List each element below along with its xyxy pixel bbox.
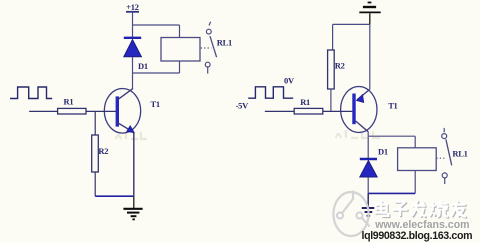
svg-text:D1: D1: [378, 147, 388, 157]
wire relay top vertical (right): [414, 136, 416, 148]
wire collector down: [367, 132, 369, 136]
relay contact (right) top circle: [442, 134, 447, 139]
node +12 supply bar: [126, 11, 139, 13]
wire relay bottom vertical (right): [414, 171, 416, 194]
relay contact arm: [210, 36, 217, 57]
diode D1 (right) cathode bar: [360, 158, 377, 160]
relay contact (right) bottom lead: [444, 178, 446, 184]
svg-text:0V: 0V: [284, 76, 295, 86]
diode D1 (right) triangle: [360, 161, 377, 177]
wire supply vertical: [132, 13, 134, 38]
transistor T1 collector line: [118, 88, 134, 99]
wire emitter vertical: [133, 133, 135, 197]
transistor T1 emitter line: [118, 123, 135, 133]
wire R1 to base (right): [323, 110, 353, 112]
ground (top, inverted) bars: [368, 2, 372, 4]
wire diode bottom: [367, 177, 369, 193]
wire input: [29, 110, 57, 112]
relay contact (right) arm: [446, 139, 452, 165]
wire input (right): [265, 110, 294, 112]
faint ghost watermark right: [336, 130, 380, 138]
relay contact bottom lead: [207, 67, 209, 73]
transistor T1 circle: [104, 89, 140, 134]
ground stem (top): [369, 13, 371, 24]
transistor T1 (right) emitter arrow (PNP): [356, 94, 363, 102]
relay coil RL1 box (right): [398, 148, 437, 171]
transistor T1 (right) emitter line: [357, 90, 370, 101]
resistor R1 (right): [294, 108, 323, 114]
wire bottom horizontal: [95, 195, 134, 197]
relay contact top circle: [206, 29, 211, 34]
relay coil RL1 box: [161, 38, 200, 62]
svg-text:R2: R2: [335, 60, 345, 70]
svg-text:+12: +12: [126, 2, 138, 12]
transistor T1 (right) collector line: [356, 121, 369, 132]
svg-text:T1: T1: [388, 101, 397, 111]
svg-text:D1: D1: [138, 61, 148, 71]
wire emitter feed vertical: [369, 24, 371, 89]
svg-text:lql990832.blog.163.com: lql990832.blog.163.com: [362, 230, 473, 242]
transistor T1 base bar: [116, 96, 119, 126]
svg-text:RL1: RL1: [452, 149, 467, 159]
resistor R2 (right): [328, 50, 335, 89]
wire base junction down: [94, 111, 96, 135]
relay contact RL1 top tick: [209, 22, 211, 26]
wire R1 to base: [86, 110, 116, 112]
transistor T1 (right) circle: [341, 87, 377, 133]
transistor T1 emitter arrow: [127, 126, 135, 133]
faint ghost watermark left: [116, 131, 147, 139]
watermark chinese text (simplified glyph strokes): [377, 201, 468, 218]
wire relay top vertical: [179, 25, 181, 38]
wire relay bottom vertical: [179, 61, 181, 73]
ground bars (bottom right): [362, 207, 375, 209]
input square wave: [10, 87, 52, 99]
wire left branch down to R2: [332, 24, 334, 50]
wire junction to diode: [367, 136, 369, 159]
wire relay bottom horizontal: [133, 72, 180, 74]
relay contact (right) bottom circle: [442, 173, 447, 178]
diode D1 cathode bar: [124, 37, 141, 39]
wire relay bottom horizontal (right): [368, 192, 415, 194]
svg-text:R2: R2: [98, 146, 108, 156]
svg-text:T1: T1: [151, 99, 160, 109]
wire R2 bottom: [94, 172, 96, 196]
wire ground junction horizontal: [333, 23, 370, 25]
wire diode to collector: [132, 57, 134, 89]
wire R2 bottom to base wire: [330, 89, 332, 111]
svg-text:R1: R1: [64, 97, 74, 107]
transistor T1 (right) base bar: [352, 94, 355, 125]
relay contact bottom circle: [205, 62, 210, 67]
relay actuation dotted line: [201, 47, 212, 49]
resistor R2: [92, 135, 99, 172]
input square wave (right): [248, 87, 293, 98]
resistor R1: [58, 108, 86, 114]
svg-text:RL1: RL1: [217, 37, 232, 47]
svg-text:R1: R1: [300, 97, 310, 107]
relay actuation dotted line (right): [436, 157, 445, 159]
watermark logo circle: [333, 191, 369, 237]
wire junction to relay top: [133, 24, 180, 26]
wire collector junction to relay: [368, 135, 415, 137]
diode D1 triangle: [124, 40, 142, 57]
svg-text:-5V: -5V: [236, 100, 249, 110]
relay contact RL1 (right) top tick: [443, 128, 445, 132]
ground stem (bottom right): [367, 193, 369, 207]
ground stem (left): [133, 196, 135, 208]
ground bars (left): [123, 208, 142, 210]
